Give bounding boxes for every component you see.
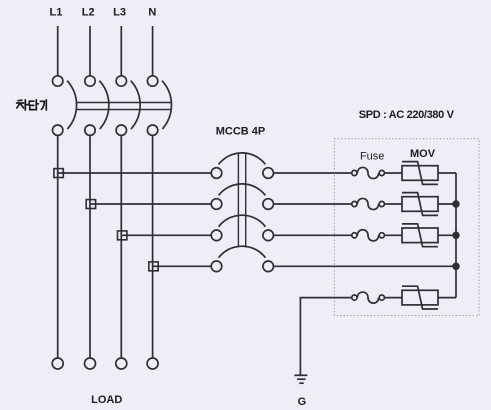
wire L2 tap to MCCB <box>90 203 211 205</box>
breaker pole1 top contact <box>53 76 63 86</box>
wire F3 to MOV3 <box>384 234 402 236</box>
fuse F2 <box>352 198 385 209</box>
svg-text:MOV: MOV <box>410 148 436 160</box>
wire L3 to load <box>120 135 122 357</box>
wire N to load <box>152 135 154 357</box>
ground <box>294 375 307 383</box>
load terminal L3 <box>116 358 127 369</box>
MCCB pole2 right contact <box>263 199 274 210</box>
wire MOV1 to bus <box>438 172 456 174</box>
junction dot L2 bus <box>453 201 459 207</box>
svg-text:N: N <box>148 7 156 19</box>
MCCB pole1 blade arc <box>219 153 266 165</box>
MCCB pole1 right contact <box>263 168 274 179</box>
breaker pole2 top contact <box>85 76 95 86</box>
breaker pole4 bottom contact <box>147 125 157 135</box>
MCCB pole2 left contact <box>211 199 222 210</box>
wire N tap to MCCB <box>153 265 212 267</box>
MCCB pole4 blade arc <box>219 246 266 258</box>
wire MCCB N to bus <box>274 265 457 267</box>
wire MOV4 to bus <box>438 297 456 299</box>
svg-text:L1: L1 <box>49 7 62 19</box>
junction dot L3 bus <box>453 232 459 238</box>
wire L2 top <box>89 26 91 76</box>
load terminal L2 <box>85 358 96 369</box>
wire L1 to load <box>57 135 59 357</box>
breaker pole2 bottom contact <box>85 125 95 135</box>
varistor MOV1 <box>402 162 438 185</box>
common bus wire <box>455 173 457 298</box>
breaker linkage bar <box>76 103 172 110</box>
wire L1 tap to MCCB <box>58 172 212 174</box>
wire MCCB L1 to fuse <box>274 172 352 174</box>
svg-text:L3: L3 <box>113 7 126 19</box>
breaker pole4 top contact <box>147 76 157 86</box>
wire MCCB L2 to fuse <box>274 203 352 205</box>
junction dot N bus <box>453 263 459 269</box>
svg-text:SPD : AC 220/380 V: SPD : AC 220/380 V <box>359 109 455 121</box>
wire F1 to MOV1 <box>384 172 402 174</box>
tap junction L2 <box>86 200 95 209</box>
wire F2 to MOV2 <box>384 203 402 205</box>
wire MOV3 to bus <box>438 234 456 236</box>
breaker pole1 bottom contact <box>53 125 63 135</box>
tap junction N <box>149 262 158 271</box>
fuse F3 <box>352 230 385 241</box>
MCCB pole2 blade arc <box>219 184 266 196</box>
breaker label 차단기 <box>17 100 47 110</box>
MCCB pole4 left contact <box>211 261 222 272</box>
wire L1 top <box>57 26 59 76</box>
varistor MOV4 <box>402 286 438 309</box>
breaker pole4 blade arc <box>162 81 171 129</box>
svg-text:Fuse: Fuse <box>360 151 384 163</box>
wire F4 to ground riser <box>300 298 351 375</box>
wire MOV2 to bus <box>438 203 456 205</box>
varistor MOV2 <box>402 193 438 216</box>
MCCB linkage bar <box>238 153 245 248</box>
wire N top <box>152 26 154 76</box>
MCCB pole3 left contact <box>211 230 222 241</box>
svg-text:LOAD: LOAD <box>91 394 122 406</box>
fuse F1 <box>352 167 385 178</box>
breaker pole2 blade arc <box>99 81 108 129</box>
wire MCCB L3 to fuse <box>274 234 352 236</box>
fuse F4 <box>352 292 385 303</box>
tap junction L3 <box>118 231 127 240</box>
breaker pole3 blade arc <box>131 81 140 129</box>
load terminal L1 <box>52 358 63 369</box>
breaker pole1 blade arc <box>67 81 76 129</box>
MCCB pole3 right contact <box>263 230 274 241</box>
wire L3 top <box>120 26 122 76</box>
breaker pole3 bottom contact <box>116 125 126 135</box>
svg-text:MCCB 4P: MCCB 4P <box>216 125 266 137</box>
tap junction L1 <box>54 169 63 178</box>
load terminal N <box>147 358 158 369</box>
breaker pole3 top contact <box>116 76 126 86</box>
SPD enclosure box <box>334 139 479 316</box>
svg-text:G: G <box>298 396 307 408</box>
MCCB pole4 right contact <box>263 261 274 272</box>
MCCB pole1 left contact <box>211 168 222 179</box>
wire L2 to load <box>89 135 91 357</box>
varistor MOV3 <box>402 224 438 247</box>
MCCB pole3 blade arc <box>219 215 266 227</box>
wire F4 to MOV4 <box>384 297 402 299</box>
svg-text:L2: L2 <box>82 7 95 19</box>
wire L3 tap to MCCB <box>121 234 211 236</box>
